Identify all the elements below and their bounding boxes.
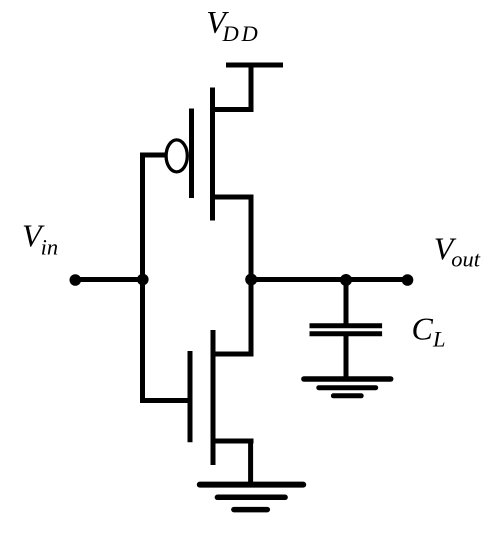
wire PMOS drain down to output <box>249 197 254 281</box>
svg-text:in: in <box>41 235 59 260</box>
node input terminal dot <box>70 274 82 286</box>
wire output horizontal <box>251 277 408 282</box>
node junction drain-output dot <box>245 274 257 286</box>
capacitor CL top plate <box>310 323 383 328</box>
node output terminal dot <box>402 274 414 286</box>
wire gate input to bubble <box>141 153 166 158</box>
wire capacitor to ground <box>344 334 349 379</box>
svg-text:out: out <box>451 246 481 271</box>
pmos M1 gate line <box>189 109 194 199</box>
nmos M2 gate line <box>188 351 193 442</box>
nmos M2 channel <box>211 330 216 465</box>
wire VDD rail to PMOS source <box>249 63 254 110</box>
wire NMOS drain up to output <box>249 280 254 355</box>
pmos M1 gate bubble <box>166 140 187 172</box>
wire NMOS source down to ground <box>248 441 253 485</box>
svg-text:C: C <box>412 310 434 346</box>
nmos M2 source bar <box>211 439 254 444</box>
ground NMOS line 1 <box>200 482 303 488</box>
wire output down to capacitor <box>344 280 349 329</box>
ground capacitor line 2 <box>319 385 376 390</box>
nmos M2 drain bar <box>211 352 254 357</box>
ground capacitor line 3 <box>333 393 361 398</box>
ground NMOS line 3 <box>234 507 267 513</box>
pmos M1 channel <box>210 88 215 221</box>
VDD rail <box>226 63 283 68</box>
nmos M2 gate wire <box>143 398 191 403</box>
svg-text:DD: DD <box>222 21 261 46</box>
node junction input-gate dot <box>137 274 149 286</box>
pmos M1 source bar <box>210 107 254 112</box>
ground NMOS line 2 <box>217 495 285 501</box>
wire input horizontal <box>75 277 143 282</box>
ground capacitor line 1 <box>304 376 391 382</box>
wire input rail vertical <box>140 153 145 404</box>
capacitor CL bottom plate <box>310 331 383 336</box>
svg-text:L: L <box>432 327 446 352</box>
node junction capacitor tap dot <box>340 274 352 286</box>
pmos M1 drain bar <box>210 195 254 200</box>
